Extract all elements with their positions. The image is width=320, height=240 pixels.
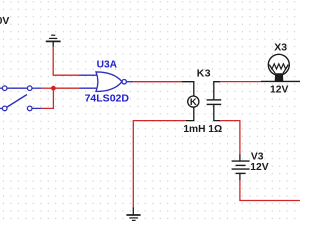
svg-text:X3: X3 [274,42,287,53]
wire: J1 to junction [41,87,53,89]
net label 0V (partially cut at left edge) [0,16,9,27]
switch J1 (top, closed) [0,86,41,91]
label 12V (battery) [250,162,268,173]
relay K3 contact plates [207,100,222,105]
svg-text:K3: K3 [197,69,211,80]
ground GND2 (bottom) [126,208,140,221]
label U3A [97,60,118,71]
battery V3 [232,154,250,180]
svg-text:V3: V3 [251,152,264,163]
relay K3 coil circle [188,96,199,108]
switch J2 (bottom, open) [0,95,41,111]
wire: junction to U3A input 2 [53,87,79,89]
label 74LS02D [85,92,130,104]
lamp X3 base [275,73,284,81]
svg-text:U3A: U3A [97,60,118,71]
relay K3 coil pin stub top [182,82,194,96]
svg-text:12V: 12V [250,162,268,173]
label V3 [251,152,264,163]
lamp X3 lead wire [261,80,300,82]
svg-text:12V: 12V [270,85,288,96]
lamp X3 bulb [268,54,289,75]
wire: coil bottom to GND2 [133,121,186,208]
op-amp U3A (NOR gate 74LS02D) [80,72,134,92]
wire: battery bottom to right edge [240,180,300,201]
svg-text:74LS02D: 74LS02D [85,92,130,104]
label 12V (lamp) [270,85,288,96]
wire: contact top to lamp X3 [220,81,261,83]
label 1mH 1Ω [183,124,222,135]
svg-text:1mH 1Ω: 1mH 1Ω [183,124,222,135]
svg-text:K: K [190,97,197,108]
wire: GND1 to U3A input 1 [53,47,79,76]
junction node [51,86,56,91]
wire: contact bottom to battery V3 [220,121,240,155]
wire: J2 to junction [41,88,53,108]
relay K3 coil pin stub bottom [186,107,194,121]
wire: U3A output to relay coil [133,81,182,83]
ground GND1 (top, rotated 180) [46,35,61,47]
svg-text:0V: 0V [0,16,9,27]
label K3 [197,69,211,80]
label X3 [274,42,287,53]
relay K3 contact pin stub bottom [214,105,220,121]
relay K3 contact pin stub top [214,82,220,100]
